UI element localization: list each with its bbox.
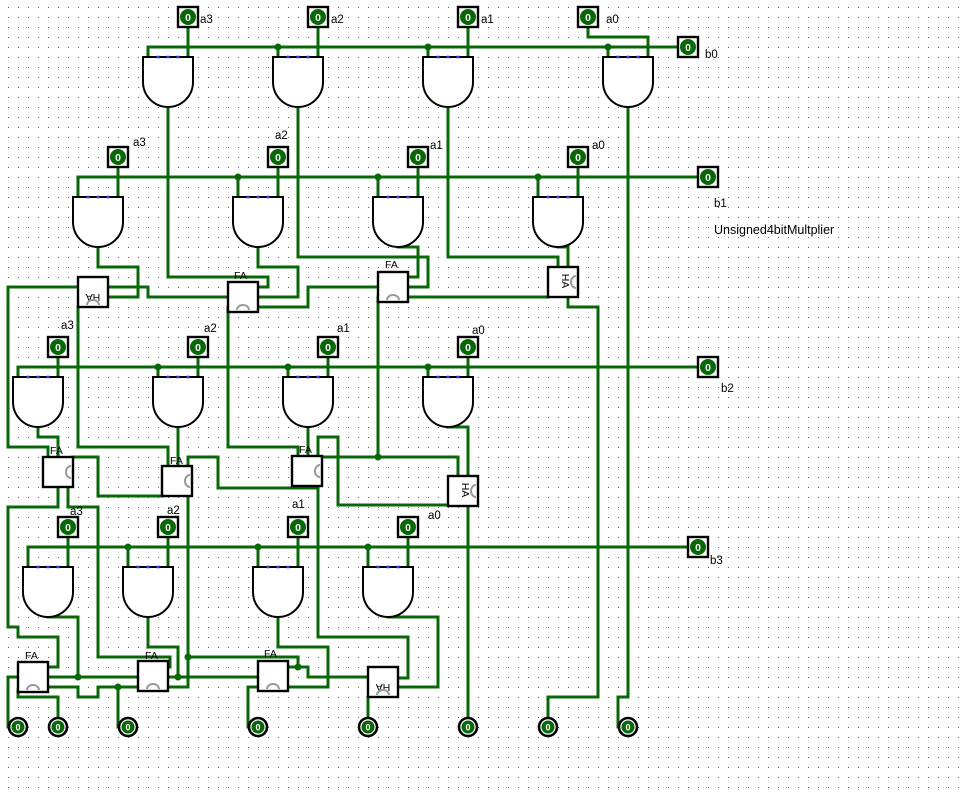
- svg-text:0: 0: [705, 172, 711, 184]
- wire U14 out h: [298, 256, 428, 259]
- node junction (608,47): [605, 44, 612, 51]
- input pin a2 row2: [268, 147, 288, 167]
- AND gate U16: [603, 56, 653, 107]
- node junction (128,547): [125, 544, 132, 551]
- node junction (178,677): [175, 674, 182, 681]
- svg-text:b1: b1: [714, 198, 727, 210]
- wire FA3.E457 h: [73, 456, 98, 459]
- wire FA5 sum v3: [307, 667, 310, 677]
- wire FA3.E457 v: [97, 457, 100, 496]
- svg-text:0: 0: [195, 342, 201, 354]
- wire pin a2.r2 to U18.B: [277, 167, 280, 197]
- node junction (238,177): [235, 174, 242, 181]
- svg-text:0: 0: [275, 152, 281, 164]
- wire pin a3.r3 to U21.B: [57, 357, 60, 377]
- wire pin a3.r1 to U13.B: [187, 27, 190, 57]
- wire p5 stair v1: [77, 687, 80, 697]
- svg-text:a2: a2: [167, 505, 180, 517]
- wire FA1.W307 v down: [227, 307, 230, 447]
- wire FA8.W687 stub: [248, 686, 258, 689]
- AND gate U26: [123, 566, 173, 617]
- svg-text:0: 0: [625, 723, 630, 733]
- svg-text:0: 0: [325, 342, 331, 354]
- half adder HA3: [448, 476, 478, 506]
- wire p5 drop: [117, 687, 120, 727]
- wire FA3 sum v3: [169, 657, 172, 667]
- wire FA3.S58 v: [57, 487, 60, 507]
- wire HA1 S h to FA5: [78, 446, 168, 449]
- svg-text:b3: b3: [710, 555, 723, 567]
- AND gate U21: [13, 376, 63, 427]
- svg-text:0: 0: [295, 522, 301, 534]
- wire U18 out v2: [297, 267, 300, 297]
- wire pin a3.r2 to U17.B: [117, 167, 120, 197]
- wire FA1.W307 to FA4.N298: [297, 447, 300, 457]
- wire FA2.W297 v down: [377, 297, 380, 457]
- wire bus b0 drop to U13.A: [147, 47, 150, 57]
- svg-text:FA: FA: [170, 455, 183, 467]
- svg-text:0: 0: [165, 522, 171, 534]
- AND gate U28: [363, 566, 413, 617]
- wire stair h2: [18, 636, 58, 639]
- svg-text:b0: b0: [705, 49, 718, 61]
- full adder FA8: [258, 648, 288, 691]
- wire U15 out h: [448, 256, 558, 259]
- wire HA1.E287 jog v: [147, 287, 150, 297]
- node junction (378,177): [375, 174, 382, 181]
- svg-text:0: 0: [15, 723, 20, 733]
- wire HA1 S drop: [77, 307, 80, 447]
- input pin a3 row3: [48, 337, 68, 357]
- wire FA3.S58 h: [8, 506, 58, 509]
- wire bus b0 drop to U15.A: [427, 47, 430, 57]
- AND gate U25: [23, 566, 73, 617]
- output pin p3: [359, 718, 377, 736]
- svg-text:0: 0: [705, 362, 711, 374]
- wire to FA5.N188: [187, 457, 190, 466]
- AND gate U15: [423, 56, 473, 107]
- svg-text:a2: a2: [331, 14, 344, 26]
- wire pin a1.r3 to U23.B: [327, 357, 330, 377]
- input pin a0: [578, 7, 598, 27]
- svg-text:a0: a0: [592, 140, 605, 152]
- wire bus b1 drop to U17.A: [77, 177, 80, 197]
- wire bus b3 drop to U28.A: [367, 547, 370, 567]
- wire U17 out h: [98, 266, 138, 269]
- AND gate U13: [143, 56, 193, 107]
- output pin p1: [539, 718, 557, 736]
- wire pin a3.r4 to U25.B: [67, 537, 70, 567]
- wire U17 out v: [97, 247, 100, 267]
- svg-text:a3: a3: [61, 320, 74, 332]
- input pin a3 row4: [58, 517, 78, 537]
- input pin a0 row3: [458, 337, 478, 357]
- wire HA2.S568 h: [568, 306, 598, 309]
- wire FA1.E307 h: [258, 306, 308, 309]
- wire HA4.S to p3: [367, 697, 370, 717]
- input pin a2: [308, 7, 328, 27]
- wire bus b2: [18, 366, 698, 369]
- wire FA4 sum h: [218, 487, 318, 490]
- node junction (428,47): [425, 44, 432, 51]
- input pin a0 row2: [568, 147, 588, 167]
- wire left margin v2: [7, 507, 10, 627]
- wire HA2 S v long to p1: [597, 307, 600, 697]
- wire HA1.E287 h: [108, 286, 148, 289]
- wire drop HA3.N458: [457, 457, 460, 476]
- svg-text:a1: a1: [292, 499, 305, 511]
- wire pin a0.r1 to U16.B: [647, 37, 650, 57]
- input pin a3: [178, 7, 198, 27]
- wire pin a1.r4 to U27.B: [297, 537, 300, 567]
- svg-text:0: 0: [465, 342, 471, 354]
- wire FA6.E677 h: [48, 676, 138, 679]
- wire pin a2.r4 to U26.B: [167, 537, 170, 567]
- AND gate U23: [283, 376, 333, 427]
- node junction (158,367): [155, 364, 162, 371]
- AND gate U27: [253, 566, 303, 617]
- node junction (118,687): [115, 684, 122, 691]
- svg-text:FA: FA: [264, 648, 277, 660]
- wire U28 out v: [437, 617, 440, 687]
- svg-text:a3: a3: [133, 137, 146, 149]
- output pin p6: [49, 718, 67, 736]
- full adder FA1: [228, 270, 258, 312]
- svg-text:HA: HA: [459, 483, 471, 498]
- output pin p4: [249, 718, 267, 736]
- full adder FA2: [378, 259, 408, 302]
- wire p1 jog h: [548, 696, 598, 699]
- wire pin a0.r4 to U28.B: [407, 537, 410, 567]
- wire pin a0.r1 jog v: [587, 27, 590, 37]
- wire U27 out h: [278, 646, 328, 649]
- AND gate U20: [533, 196, 583, 247]
- AND gate U17: [73, 196, 123, 247]
- AND gate U14: [273, 56, 323, 107]
- wire pin a0.r1 jog h: [588, 36, 648, 39]
- svg-text:0: 0: [415, 152, 421, 164]
- wire bus b1 drop to U20.A: [537, 177, 540, 197]
- wire U18 out h: [258, 266, 298, 269]
- wire HA3 sum to p2: [467, 506, 470, 717]
- input pin a2 row3: [188, 337, 208, 357]
- node junction (78,677): [75, 674, 82, 681]
- full adder FA4: [292, 444, 322, 486]
- wire to HA4.E687: [398, 686, 438, 689]
- full adder FA5: [162, 455, 192, 496]
- half adder HA2: [548, 267, 578, 297]
- svg-text:0: 0: [695, 542, 701, 554]
- wire U17 out v2: [137, 267, 140, 297]
- wire to FA7.E667: [168, 666, 170, 669]
- wire p5 stair v2: [97, 687, 100, 697]
- wire U26 out v: [147, 617, 150, 647]
- wire p0 drop: [617, 697, 620, 727]
- wire pin a0.r2 to U20.B: [577, 167, 580, 197]
- wire FA5 sum v2: [297, 657, 300, 667]
- input pin b0: [678, 37, 698, 57]
- wire to FA8.E667: [288, 666, 308, 669]
- wire FA2.E297 to HA2.W297: [408, 296, 548, 299]
- input pin b1: [698, 167, 718, 187]
- wire HA1 S drop FA5.N168: [167, 447, 170, 466]
- wire p4 drop: [247, 687, 250, 727]
- input pin a0 row4: [398, 517, 418, 537]
- wire p5 stair h: [78, 696, 98, 699]
- input pin a1 row2: [408, 147, 428, 167]
- svg-text:b2: b2: [721, 383, 734, 395]
- svg-text:0: 0: [585, 12, 591, 24]
- wire bus b2 drop to U23.A: [287, 367, 290, 377]
- wire U28 out h: [388, 616, 438, 619]
- wire HA1.W287 h: [8, 286, 78, 289]
- wire FA5 sum h: [188, 656, 298, 659]
- wire U13 out h: [168, 276, 268, 279]
- wire U17 out to HA1.S297: [108, 296, 138, 299]
- wire U27 out v: [277, 617, 280, 647]
- svg-text:0: 0: [255, 723, 260, 733]
- wire bus b0 drop to U16.A: [607, 47, 610, 57]
- wire pin a0.r3 to U24.B: [467, 357, 470, 377]
- wire pin a2.r1 to U14.B: [317, 27, 320, 57]
- svg-text:FA: FA: [234, 270, 247, 282]
- svg-text:FA: FA: [299, 444, 312, 456]
- svg-text:a1: a1: [430, 140, 443, 152]
- AND gate U22: [153, 376, 203, 427]
- input pin a1 row3: [318, 337, 338, 357]
- wire U21 out v: [37, 427, 40, 437]
- wire FA6.E687 h: [48, 686, 78, 689]
- wire FA4.N318 v: [317, 437, 320, 456]
- full adder FA7: [138, 650, 168, 691]
- svg-text:FA: FA: [25, 650, 38, 662]
- svg-text:a3: a3: [200, 14, 213, 26]
- node junction (428,367): [425, 364, 432, 371]
- wire to FA8.E687: [288, 686, 328, 689]
- wire FA6.W677 h: [8, 676, 18, 679]
- svg-text:0: 0: [55, 342, 61, 354]
- AND gate U18: [233, 196, 283, 247]
- output pin p5: [119, 718, 137, 736]
- wire p6 h: [18, 696, 58, 699]
- AND gate U24: [423, 376, 473, 427]
- wire p0 jog h: [618, 696, 628, 699]
- input pin a3 row2: [108, 147, 128, 167]
- wire U26 out h: [148, 646, 178, 649]
- wire FA4.S318 v long: [317, 488, 320, 637]
- wire FA1.E307 v up: [307, 287, 310, 307]
- wire U26 out v2: [177, 647, 180, 677]
- wire U21 out to FA3.N58: [57, 437, 60, 457]
- input pin a1 row4: [288, 517, 308, 537]
- svg-text:a0: a0: [606, 14, 619, 26]
- wire U26 net h FA7.E677-FA8.W677: [168, 676, 258, 679]
- wire U24 out to HA3.N468: [467, 427, 470, 476]
- wire U13 out to FA1.E287: [258, 286, 268, 289]
- wire FA3 carry to FA5.W: [98, 495, 162, 498]
- wire bus b0 drop to U14.A: [277, 47, 280, 57]
- wire HA1.W287 v margin: [7, 287, 10, 447]
- wire FA5.S188 v long: [187, 496, 190, 657]
- node junction (378,457): [375, 454, 382, 461]
- svg-text:a3: a3: [70, 506, 83, 518]
- wire pin a1.r1 to U15.B: [467, 27, 470, 57]
- svg-text:a1: a1: [337, 323, 350, 335]
- wire FA4 sum h3: [318, 636, 408, 639]
- wire to HA4.E678: [398, 677, 408, 680]
- svg-text:0: 0: [405, 522, 411, 534]
- wire U22 out to FA5.N178: [177, 427, 180, 466]
- wire U14 out v: [297, 107, 300, 257]
- wire U13 out v: [167, 107, 170, 277]
- wire bus b3 drop to U25.A: [27, 547, 30, 567]
- wire bus b2 drop to U22.A: [157, 367, 160, 377]
- wire U18 out v: [257, 247, 260, 267]
- wire pin a1.r2 to U19.B: [417, 167, 420, 197]
- svg-text:0: 0: [125, 723, 130, 733]
- svg-text:0: 0: [685, 42, 691, 54]
- svg-text:0: 0: [465, 723, 470, 733]
- svg-text:0: 0: [365, 723, 370, 733]
- wire U20 out to HA2.N568: [567, 247, 570, 267]
- svg-text:a0: a0: [472, 325, 485, 337]
- input pin a1: [458, 7, 478, 27]
- wire FA4 carry to HA3.W: [338, 504, 448, 507]
- output pin p2: [459, 718, 477, 736]
- wire U15 out to HA2.N558: [557, 257, 560, 267]
- wire row3 carry h: [324, 456, 458, 459]
- wire FA3 sum v long: [97, 507, 100, 657]
- half adder HA4: [368, 667, 398, 697]
- svg-text:0: 0: [55, 723, 60, 733]
- wire stair v2: [57, 637, 60, 667]
- wire FA4.N318 h: [318, 436, 338, 439]
- wire U14 out to FA2.E287: [408, 286, 428, 289]
- svg-text:a1: a1: [481, 14, 494, 26]
- wire p6 drop: [57, 697, 60, 717]
- wire U18 out to FA1.E297: [258, 296, 298, 299]
- wire U19 out v: [417, 247, 420, 277]
- wire U21 out h: [38, 436, 58, 439]
- output pin p7: [9, 718, 27, 736]
- wire bus b3 drop to U27.A: [257, 547, 260, 567]
- wire FA7.E687 h: [168, 686, 188, 689]
- wire HA1.E287 to FA1.W297: [148, 296, 228, 299]
- wire to FA6.E667: [48, 666, 58, 669]
- svg-text:0: 0: [65, 522, 71, 534]
- wire stair v1: [17, 627, 20, 637]
- svg-text:FA: FA: [385, 259, 398, 271]
- wire HA2.S568 v: [567, 297, 570, 307]
- output pin p0: [619, 718, 637, 736]
- full adder FA3: [43, 445, 73, 487]
- svg-text:0: 0: [185, 12, 191, 24]
- svg-text:a2: a2: [204, 323, 217, 335]
- wire U19 out to FA2.E277: [408, 276, 418, 279]
- wire FA1.W307 h: [228, 446, 298, 449]
- wire bus b1 drop to U19.A: [377, 177, 380, 197]
- wire FA4 sum h2: [188, 456, 218, 459]
- wire FA4 carry v: [337, 437, 340, 505]
- node junction (538,177): [535, 174, 542, 181]
- svg-text:0: 0: [315, 12, 321, 24]
- wire FA3.S68 v: [67, 487, 70, 507]
- half adder HA1: [78, 277, 108, 307]
- wire FA6.S stub: [17, 690, 20, 697]
- wire p1 drop: [547, 697, 550, 717]
- wire U15 out v: [447, 107, 450, 257]
- wire U13 out v2: [267, 277, 270, 287]
- wire carry h to FA3: [8, 446, 48, 449]
- wire FA4 sum v up: [217, 457, 220, 488]
- svg-text:0: 0: [115, 152, 121, 164]
- wire p7 drop: [7, 677, 10, 727]
- wire carry drop FA3.N48: [47, 447, 50, 457]
- wire FA1.E307 to FA2.W287: [308, 286, 378, 289]
- wire U23 out to FA4.N308: [307, 427, 310, 456]
- svg-text:FA: FA: [50, 445, 63, 457]
- wire bus b0: [148, 46, 678, 49]
- AND gate U19: [373, 196, 423, 247]
- wire bus b1 drop to U18.A: [237, 177, 240, 197]
- wire U24 out h: [448, 426, 468, 429]
- wire U20 out h: [558, 246, 568, 249]
- wire U25 out v: [77, 617, 80, 677]
- wire bus b3 drop to U26.A: [127, 547, 130, 567]
- input pin b3: [688, 537, 708, 557]
- node junction (298,667): [295, 664, 302, 671]
- wire bus b2 drop to U21.A: [17, 367, 20, 377]
- wire U25 out h: [48, 616, 78, 619]
- wire bus b2 drop to U24.A: [427, 367, 430, 377]
- svg-text:0: 0: [575, 152, 581, 164]
- svg-text:Unsigned4bitMultplier: Unsigned4bitMultplier: [714, 223, 834, 237]
- wire stair h1: [8, 626, 18, 629]
- wire U16 out v to p0: [627, 107, 630, 697]
- node junction (288,367): [285, 364, 292, 371]
- wire bus b1: [78, 176, 698, 179]
- wire FA4 sum v3: [407, 637, 410, 678]
- svg-text:a0: a0: [428, 510, 441, 522]
- node junction (278,47): [275, 44, 282, 51]
- wire FA3 sum h: [98, 656, 170, 659]
- svg-text:0: 0: [545, 723, 550, 733]
- node junction (368,547): [365, 544, 372, 551]
- node junction (258,547): [255, 544, 262, 551]
- wire U27 out v2: [327, 647, 330, 687]
- svg-text:HA: HA: [559, 274, 571, 289]
- wire pin a2.r3 to U22.B: [197, 357, 200, 377]
- svg-text:a2: a2: [275, 130, 288, 142]
- wire FA3.S68 h: [68, 506, 98, 509]
- full adder FA6: [18, 650, 48, 692]
- input pin b2: [698, 357, 718, 377]
- input pin a2 row4: [158, 517, 178, 537]
- wire U14 out v2: [427, 257, 430, 287]
- wire U19 out h: [398, 246, 418, 249]
- svg-text:FA: FA: [145, 650, 158, 662]
- wire bus b3: [28, 546, 688, 549]
- wire FA7.E687 v up: [187, 657, 190, 687]
- svg-text:0: 0: [465, 12, 471, 24]
- wire p5 h: [98, 686, 138, 689]
- node junction (188,657): [185, 654, 192, 661]
- wire to HA4.W677: [308, 676, 368, 679]
